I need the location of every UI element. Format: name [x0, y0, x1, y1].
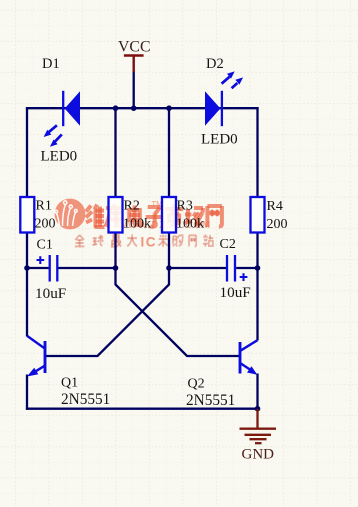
watermark gray char 全: [75, 235, 85, 247]
capacitor C2: [227, 255, 247, 282]
wire left rail upper: [26, 107, 28, 197]
svg-text:C2: C2: [220, 237, 236, 252]
node junction C1-R2: [113, 265, 119, 271]
wire left rail lower: [26, 375, 28, 410]
node junction right rail C2: [255, 265, 261, 271]
watermark char 电: [129, 206, 141, 226]
resistor R4: [251, 197, 265, 233]
watermark gray char 球: [92, 235, 103, 245]
svg-text:LED0: LED0: [41, 149, 78, 165]
node junction bus-R3: [166, 105, 172, 111]
svg-text:C1: C1: [37, 238, 53, 253]
watermark gray char 大: [127, 234, 137, 246]
wire R2 top drop: [114, 108, 116, 197]
resistor R1: [20, 197, 34, 233]
svg-text:10uF: 10uF: [35, 285, 66, 302]
wire C1 right: [58, 267, 116, 269]
watermark gray char 网2: [189, 235, 196, 246]
svg-text:200: 200: [35, 217, 56, 232]
watermark logo circuit sprout: [55, 201, 77, 226]
diode D1 LED: [44, 91, 80, 147]
watermark char 维: [86, 205, 105, 228]
wire C2 left: [169, 267, 226, 269]
wire R3 bottom drop: [168, 233, 170, 270]
svg-text:VCC: VCC: [118, 39, 150, 56]
wire right rail lower: [256, 374, 258, 410]
svg-text:Q2: Q2: [188, 377, 205, 392]
watermark char 子: [146, 207, 164, 227]
svg-text:Q1: Q1: [61, 376, 78, 391]
svg-text:R3: R3: [177, 199, 193, 214]
wire R3 top drop: [168, 108, 170, 197]
watermark char 场: [185, 208, 204, 225]
power port VCC: [124, 56, 144, 73]
wire top VCC bus: [26, 107, 259, 109]
svg-text:2N5551: 2N5551: [186, 392, 235, 409]
wire right rail mid (R4 to Q2 collector): [256, 233, 258, 341]
node junction bus-VCC: [131, 105, 137, 111]
watermark gray char 采: [158, 234, 168, 246]
svg-text:D2: D2: [206, 56, 224, 72]
watermark gray char 站: [203, 234, 213, 246]
svg-text:D1: D1: [42, 56, 60, 72]
svg-text:GND: GND: [242, 447, 275, 463]
svg-text:100k: 100k: [123, 217, 151, 232]
transistor Q2: [240, 340, 257, 375]
svg-text:100k: 100k: [176, 217, 204, 232]
node junction left rail C1: [24, 265, 30, 271]
svg-text:R2: R2: [124, 199, 140, 214]
wire VCC stem lower: [133, 71, 135, 109]
wire cross R2 to Q2 base: [116, 268, 241, 356]
node junction ground: [255, 406, 261, 412]
wire right rail upper: [256, 107, 258, 197]
wire R2 bottom drop: [114, 233, 116, 270]
wire bottom: [26, 408, 259, 410]
svg-text:200: 200: [267, 217, 288, 232]
wire left rail mid (R1 to Q1 collector): [26, 233, 28, 337]
wire C2 right: [236, 267, 257, 269]
watermark char 市: [166, 205, 184, 227]
node junction R3-C2: [166, 265, 172, 271]
svg-text:IC: IC: [141, 235, 158, 250]
capacitor C1: [37, 255, 58, 282]
diode D2 LED: [205, 71, 243, 126]
watermark char 库: [105, 205, 123, 228]
resistor R3: [162, 197, 176, 233]
ground: [240, 409, 277, 443]
watermark gray char 最: [111, 235, 121, 247]
svg-text:2N5551: 2N5551: [61, 391, 110, 408]
watermark logo circle: [55, 199, 86, 230]
svg-text:TM: TM: [152, 199, 163, 208]
wire C1 left: [27, 267, 49, 269]
wire cross R3 to Q1 base: [46, 268, 169, 356]
svg-text:LED0: LED0: [201, 132, 238, 148]
svg-text:R4: R4: [267, 199, 283, 214]
transistor Q1: [27, 336, 45, 377]
svg-text:R1: R1: [36, 199, 52, 214]
watermark char 网: [207, 206, 222, 227]
resistor R2: [109, 197, 123, 233]
node junction bus-R2: [113, 105, 119, 111]
watermark gray char 购: [173, 235, 183, 246]
svg-text:10uF: 10uF: [220, 284, 251, 301]
